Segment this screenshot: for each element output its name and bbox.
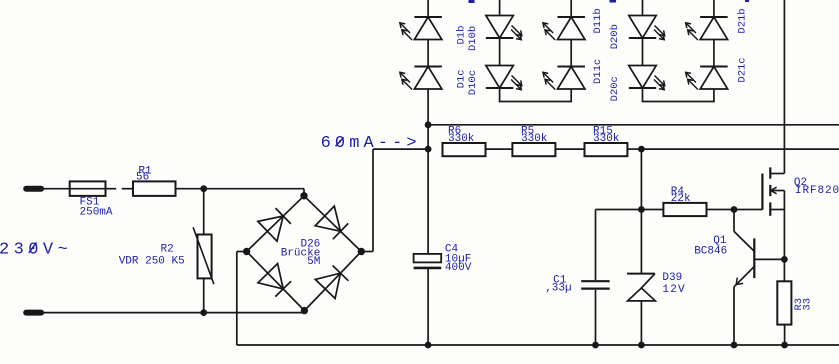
label fragment top 3 (745, 0, 749, 2)
LED D1b (400, 17, 442, 40)
svg-text:VDR 250 K5: VDR 250 K5 (119, 256, 185, 268)
LED D20b (629, 16, 665, 41)
bridge diode D26 upper-right (315, 206, 348, 239)
wire Q2 drain from top edge (783, 0, 785, 174)
svg-text:D11c: D11c (592, 59, 604, 84)
wire node to R4 (641, 209, 663, 211)
capacitor C4 (414, 244, 472, 274)
svg-text:60mA-->: 60mA--> (321, 134, 421, 153)
svg-text:330k: 330k (448, 133, 475, 145)
svg-text:D20c: D20c (609, 76, 621, 101)
resistor R15 (585, 126, 628, 157)
svg-text:BC846: BC846 (694, 245, 727, 257)
node R2 bottom junction (200, 309, 207, 316)
node Q1 base / Q2 source junction (781, 256, 788, 263)
fuse FS1 (70, 181, 113, 218)
wire R6-R5 (486, 148, 513, 150)
LED D10c (486, 66, 522, 91)
resistor R4 (663, 186, 706, 216)
svg-text:250mA: 250mA (80, 207, 113, 219)
wire LED column 3 top stub (570, 0, 572, 17)
svg-text:56: 56 (136, 172, 149, 184)
wire source node to R3 (783, 259, 785, 281)
node gate/collector junction (731, 206, 738, 213)
wire D10b-D10c (499, 38, 501, 66)
zener diode D39 (627, 272, 686, 301)
svg-text:D1b: D1b (456, 26, 468, 45)
wire bridge plus output (361, 149, 373, 251)
label slash of 0 in 230V (29, 242, 37, 252)
wire D20b-D20c (642, 38, 644, 66)
resistor R3 (777, 281, 813, 324)
node R4/C1 junction (638, 206, 645, 213)
node resistor row junction (425, 146, 432, 153)
LED D21b (685, 17, 727, 40)
wire LED column 1 top stub (427, 0, 429, 17)
bridge D26 edge L-T (247, 196, 304, 252)
LED D10b (486, 16, 522, 41)
LED D1c (400, 67, 442, 90)
node C4 rail junction (425, 342, 432, 349)
svg-text:D10b: D10b (467, 26, 479, 51)
wire bottom AC to bridge (41, 312, 304, 314)
wire terminal to fuse (41, 188, 70, 190)
node R15 output junction (638, 146, 645, 153)
wire LED column 4 top stub (642, 0, 644, 16)
capacitor C1 (545, 274, 610, 294)
label slash of 0 in 60mA (336, 137, 344, 146)
node bridge bottom corner (301, 307, 308, 314)
wire bottom AC into bridge corner (303, 311, 305, 313)
transistor Q1 (694, 210, 784, 287)
bridge D26 edge T-R (304, 196, 361, 252)
terminal pad bottom (26, 310, 41, 316)
wire R1 to bridge top (176, 188, 305, 190)
node bridge left corner (243, 248, 250, 255)
wire D11c down (570, 89, 572, 102)
transistor Q2 (762, 167, 839, 259)
wire LED column 2 top stub (499, 0, 501, 16)
svg-text:D21b: D21b (737, 8, 749, 33)
wire R3 to ground rail (784, 325, 786, 345)
node R3 rail junction (781, 342, 788, 349)
wire node to R4 row (640, 149, 642, 209)
wire D1b-D1c (427, 40, 429, 67)
svg-text:33: 33 (802, 298, 814, 311)
wire D20c down (642, 88, 644, 102)
svg-text:5M: 5M (307, 256, 320, 268)
resistor R6 (443, 126, 486, 157)
LED D21c (685, 67, 727, 90)
wire bottom DC rail (237, 344, 839, 346)
wire Q1 emitter to ground rail (733, 287, 735, 345)
wire bridge minus output (237, 252, 247, 346)
label fragment top 1 (469, 0, 475, 3)
node C1 rail junction (592, 342, 599, 349)
wire LED column 5 top stub (713, 0, 715, 17)
varistor R2 (119, 189, 214, 313)
bridge diode D26 upper-left (258, 208, 291, 241)
resistor R5 (512, 126, 555, 157)
node bus A junction (425, 121, 432, 128)
wire D21c down (713, 89, 715, 102)
label D26 Bruecke 5M (281, 238, 321, 268)
bridge D26 edge L-B (247, 252, 305, 311)
svg-text:IRF820: IRF820 (795, 185, 839, 197)
resistor R1 (133, 165, 176, 196)
node Q1 emitter rail junction (731, 342, 738, 349)
svg-text:D11b: D11b (592, 8, 604, 33)
LED D11c (543, 67, 585, 90)
node D39 rail junction (638, 342, 645, 349)
svg-text:R2: R2 (161, 244, 174, 256)
wire column2-column3 bottom link (499, 101, 572, 103)
svg-text:12V: 12V (662, 284, 685, 296)
bridge diode D26 lower-left (258, 264, 291, 297)
LED D20c (629, 66, 665, 91)
wire D39 to ground rail (640, 301, 642, 345)
svg-text:330k: 330k (521, 133, 548, 145)
bridge diode D26 lower-right (315, 266, 348, 299)
svg-text:D1c: D1c (456, 69, 468, 88)
wire D11b-D11c (570, 40, 572, 67)
wire drop to bridge top corner (303, 189, 305, 196)
bridge D26 edge B-R (304, 252, 361, 311)
svg-text:330k: 330k (593, 133, 620, 145)
wire resistor row: bridge to R6 (373, 148, 428, 150)
wire resistor row to right edge (641, 148, 839, 150)
svg-text:22k: 22k (671, 193, 691, 205)
wire column1 vertical to C4 (427, 125, 429, 254)
wire C1 to ground rail (595, 290, 597, 345)
wire R5-R15 (555, 148, 584, 150)
node bridge right corner (358, 248, 365, 255)
terminal pad top (26, 186, 41, 192)
wire C1 top lead (596, 209, 642, 211)
wire top horizontal bus (428, 124, 839, 126)
wire D10c down (499, 88, 501, 102)
svg-text:,33µ: ,33µ (545, 282, 571, 294)
wire R4 to gate (707, 209, 763, 211)
wire fuse to R1 (106, 188, 117, 190)
wire D21b-D21c (713, 40, 715, 67)
svg-text:D21c: D21c (737, 57, 749, 82)
LED D11b (543, 17, 585, 40)
node R2 top junction (200, 185, 207, 192)
wire R15 to node (627, 148, 641, 150)
node bridge top corner (300, 192, 307, 199)
svg-text:D39: D39 (662, 272, 682, 284)
wire node to zener (640, 210, 642, 274)
svg-text:D20b: D20b (609, 24, 621, 49)
svg-text:D10c: D10c (467, 70, 479, 95)
svg-text:400V: 400V (445, 262, 472, 274)
wire column4-column5 bottom link (642, 101, 715, 103)
wire C4 to ground rail (427, 269, 429, 345)
label fragment top 2 (610, 0, 617, 3)
wire D1c to node (427, 89, 429, 125)
